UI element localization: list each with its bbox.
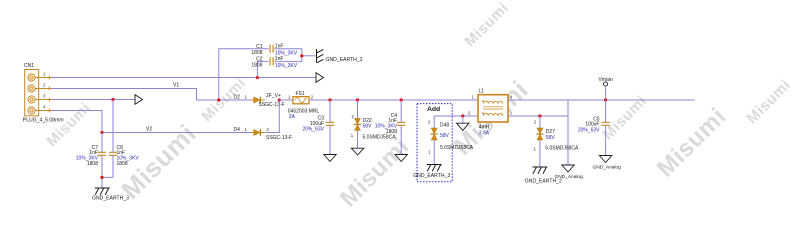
svg-text:1808: 1808 xyxy=(87,161,98,167)
wire D22 branch xyxy=(357,100,359,148)
wire gnd triangle stub xyxy=(462,116,464,123)
wire V2 net xyxy=(102,132,251,134)
wire D4 out to D2 node xyxy=(265,100,280,133)
svg-text:C1: C1 xyxy=(256,44,263,50)
wire pin1 net xyxy=(51,77,316,79)
wire C3 branch xyxy=(329,100,331,155)
ground GND_EARTH_2 xyxy=(533,167,548,174)
svg-text:GND_EARTH_2: GND_EARTH_2 xyxy=(525,179,562,185)
TVS diode D27 xyxy=(536,128,543,140)
svg-text:Add: Add xyxy=(427,106,440,113)
svg-text:1808: 1808 xyxy=(251,50,262,56)
wire C7 branch xyxy=(101,133,103,178)
capacitor C3 xyxy=(326,122,334,125)
svg-text:3A: 3A xyxy=(289,114,296,120)
wire L1 pin3 return xyxy=(508,115,568,117)
svg-text:5.0SMDJ58CA: 5.0SMDJ58CA xyxy=(363,135,397,141)
wire V1 net xyxy=(51,89,254,101)
TVS diode D22 xyxy=(354,118,361,130)
ground triangle C3 xyxy=(324,155,336,162)
capacitor C4 xyxy=(397,122,405,125)
connector CN1 xyxy=(25,70,51,116)
inductor L1 (common-mode choke) xyxy=(478,95,508,122)
svg-text:1808: 1808 xyxy=(386,129,397,135)
ground GND_EARTH_3 (top, rotated) xyxy=(317,49,324,63)
svg-text:D2: D2 xyxy=(234,94,241,100)
diode D4 xyxy=(250,129,265,136)
svg-text:SSGC-13-F: SSGC-13-F xyxy=(259,102,285,108)
ground triangle return xyxy=(562,165,574,172)
node pin3/C8 junction xyxy=(111,98,114,101)
off-page arrow pin3 xyxy=(135,95,143,105)
wire D48 branch top xyxy=(433,116,435,128)
svg-text:CN1: CN1 xyxy=(24,63,34,69)
svg-text:GND_EARTH_3: GND_EARTH_3 xyxy=(326,57,363,63)
wire pin3 stub xyxy=(51,99,135,101)
ground triangle D22 xyxy=(351,148,363,155)
svg-text:20%_63V: 20%_63V xyxy=(578,127,600,133)
node pin1/C2 junction xyxy=(256,76,259,79)
ground GND_EARTH_3 (left) xyxy=(95,188,110,195)
node V2/C7 junction xyxy=(100,131,103,134)
capacitor C2 xyxy=(270,57,273,65)
wire rail L1 pin4 to L2 pin1 xyxy=(508,99,695,101)
svg-text:V1: V1 xyxy=(173,83,179,89)
svg-text:1808: 1808 xyxy=(251,63,262,69)
wire D48 net to L1 pin2 xyxy=(434,115,478,117)
wire pin4 to V2 xyxy=(51,111,102,133)
wire C1 left lead to V1 rail xyxy=(219,49,269,100)
wire main rail FS1 to L1 xyxy=(309,99,478,101)
node C7/C8 bottom junction xyxy=(100,176,103,179)
svg-text:D4: D4 xyxy=(234,127,241,133)
wire return to gnd drop xyxy=(567,100,569,165)
wire C4 branch xyxy=(400,100,402,155)
svg-text:FS1: FS1 xyxy=(296,91,305,97)
wire F_V+ to FS1 xyxy=(279,99,293,101)
wire C1/C2 right join xyxy=(274,49,301,62)
node Vmain junction xyxy=(604,98,607,101)
ground triangle C5 xyxy=(599,156,611,163)
svg-text:58V: 58V xyxy=(440,133,450,139)
node rail/D22 junction xyxy=(356,98,359,101)
node C1/C2 earth junction xyxy=(300,54,303,57)
capacitor C7 xyxy=(98,152,106,155)
svg-text:GND_Analog: GND_Analog xyxy=(593,165,622,171)
svg-text:3.5A: 3.5A xyxy=(479,130,490,136)
wire C8 branch xyxy=(112,100,114,178)
svg-text:Vmain: Vmain xyxy=(598,77,613,83)
svg-text:D48: D48 xyxy=(440,123,449,129)
capacitor C5 xyxy=(601,122,609,125)
wire C5 branch xyxy=(605,100,607,156)
ground GND_EARTH_3 (Add box) xyxy=(427,165,442,172)
capacitor C1 xyxy=(270,45,273,53)
svg-text:5.0SMDJ58CA: 5.0SMDJ58CA xyxy=(440,145,474,151)
svg-text:5.0SMDJ58CA: 5.0SMDJ58CA xyxy=(545,146,579,152)
svg-text:L1: L1 xyxy=(479,89,485,95)
fuse FS1 xyxy=(293,97,309,104)
wire C2 left lead to pin1 net xyxy=(257,61,268,77)
svg-text:58V: 58V xyxy=(546,135,556,141)
capacitor C8 xyxy=(109,152,117,155)
node F_V+ junction xyxy=(278,98,281,101)
off-page arrow pin1 xyxy=(316,73,324,83)
diode D2 xyxy=(250,97,265,104)
node rail/C4 junction xyxy=(400,98,403,101)
svg-text:GND_EARTH_3: GND_EARTH_3 xyxy=(413,173,450,179)
node C1/V1 junction xyxy=(217,98,220,101)
wire C7/C8 bottom join xyxy=(102,177,113,188)
svg-text:10%_3KV: 10%_3KV xyxy=(275,63,298,69)
svg-text:2F_V+: 2F_V+ xyxy=(266,93,281,99)
wire to GND_EARTH_3 top xyxy=(302,55,316,57)
node D48/gnd junction xyxy=(461,114,464,117)
wire D27 to earth xyxy=(539,140,541,167)
TVS diode D48 xyxy=(431,128,438,140)
svg-text:V2: V2 xyxy=(146,127,152,133)
ground triangle C4 xyxy=(395,155,407,162)
svg-text:GND_EARTH_3: GND_EARTH_3 xyxy=(92,195,129,201)
svg-text:C2: C2 xyxy=(256,56,263,62)
svg-text:SSGC-13-F: SSGC-13-F xyxy=(266,135,292,141)
ground triangle L1 pin2 xyxy=(457,123,469,130)
svg-text:20%_63V: 20%_63V xyxy=(302,127,324,133)
svg-text:58V: 58V xyxy=(363,123,373,129)
dashed box Add xyxy=(417,104,452,182)
node D27 junction xyxy=(538,114,541,117)
wire D48 to earth xyxy=(433,140,435,165)
node rail/C3 junction xyxy=(328,98,331,101)
power Vmain xyxy=(604,82,608,100)
svg-text:PLUG_4_5.08mm: PLUG_4_5.08mm xyxy=(23,117,64,123)
svg-text:1808: 1808 xyxy=(117,161,128,167)
wire D27 branch xyxy=(539,116,541,128)
